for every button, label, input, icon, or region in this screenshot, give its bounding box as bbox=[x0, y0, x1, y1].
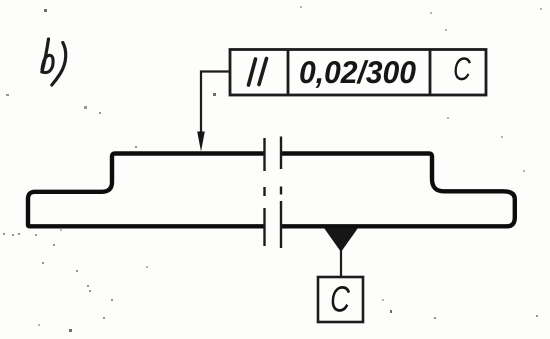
tolerance value 0,02/300 bbox=[300, 60, 415, 88]
scan specks bbox=[44, 9, 392, 332]
datum letter C bbox=[332, 286, 350, 312]
label b) bbox=[42, 39, 66, 85]
datum box bbox=[318, 277, 363, 322]
datum triangle bbox=[324, 228, 358, 252]
feature control frame bbox=[230, 50, 486, 96]
break line left bbox=[263, 138, 265, 246]
datum reference letter C in frame bbox=[455, 57, 471, 80]
datum stem bbox=[340, 250, 342, 277]
break line right bbox=[280, 137, 282, 249]
leader line bbox=[201, 72, 230, 137]
part outline right half bbox=[282, 154, 515, 227]
parallelism symbol bbox=[249, 59, 267, 86]
part outline left half bbox=[28, 154, 264, 227]
leader arrowhead bbox=[197, 132, 205, 152]
